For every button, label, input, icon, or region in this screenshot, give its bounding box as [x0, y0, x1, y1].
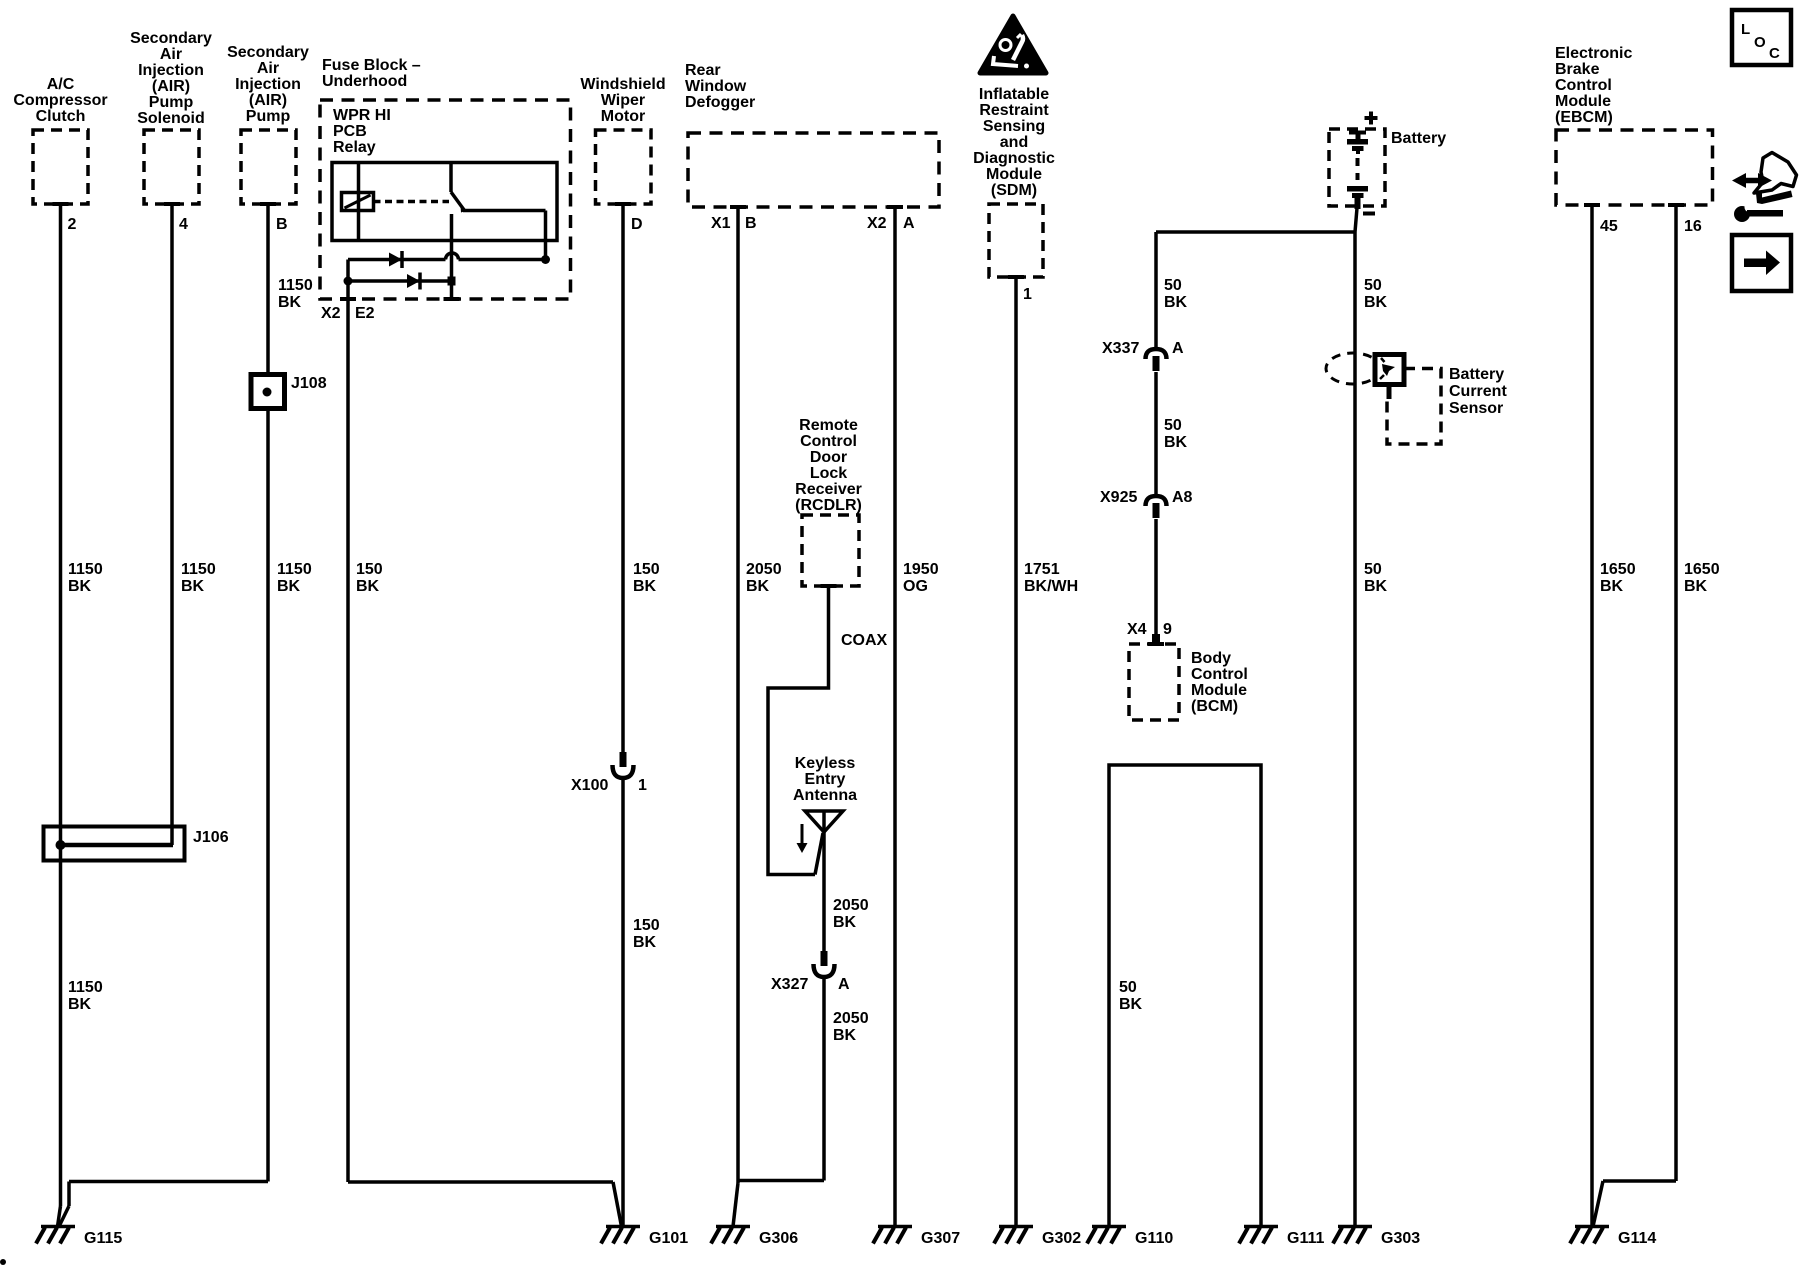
wrench icon: [1756, 191, 1793, 205]
svg-text:Inflatable: Inflatable: [979, 86, 1049, 103]
svg-text:BK: BK: [277, 578, 301, 595]
svg-text:X1: X1: [711, 215, 731, 232]
relay switch contact line: [463, 209, 546, 213]
Secondary Air Injection (AIR) Pump Solenoid box: [144, 130, 199, 204]
svg-text:A/C: A/C: [47, 76, 75, 93]
svg-text:2050: 2050: [833, 897, 869, 914]
wire fuse block to G101: [348, 1180, 613, 1184]
svg-text:Control: Control: [1555, 77, 1612, 94]
svg-text:150: 150: [633, 917, 660, 934]
svg-text:Diagnostic: Diagnostic: [973, 150, 1055, 167]
svg-text:16: 16: [1684, 218, 1702, 235]
junction dot row2 left: [344, 277, 353, 286]
svg-text:A: A: [1172, 340, 1184, 357]
svg-text:1150: 1150: [181, 561, 216, 578]
LOC reference box: [1732, 10, 1791, 65]
svg-text:G110: G110: [1135, 1230, 1173, 1247]
svg-text:BK: BK: [1164, 294, 1188, 311]
curved arrow icon: [1754, 153, 1797, 194]
svg-text:Module: Module: [1191, 682, 1247, 699]
boxed right arrow icon: [1732, 235, 1791, 291]
svg-text:BK: BK: [1119, 996, 1143, 1013]
svg-text:Body: Body: [1191, 650, 1231, 667]
Fuse Block - Underhood dashed box: [320, 100, 571, 299]
svg-text:2: 2: [68, 216, 77, 233]
svg-text:1150: 1150: [277, 561, 312, 578]
svg-text:9: 9: [1163, 621, 1172, 638]
svg-text:J106: J106: [193, 829, 229, 846]
ground G306: [716, 1225, 750, 1229]
svg-text:1150: 1150: [68, 979, 103, 996]
svg-text:G115: G115: [84, 1230, 122, 1247]
svg-text:Lock: Lock: [810, 465, 847, 482]
svg-text:45: 45: [1600, 218, 1618, 235]
svg-text:Receiver: Receiver: [795, 481, 862, 498]
A/C Compressor Clutch box: [33, 130, 88, 204]
svg-text:BK: BK: [833, 1027, 857, 1044]
svg-text:50: 50: [1164, 417, 1182, 434]
page corner artifact dot: [0, 1259, 6, 1265]
Body Control Module (BCM) box: [1129, 644, 1179, 720]
svg-text:Electronic: Electronic: [1555, 45, 1632, 62]
svg-text:Air: Air: [257, 60, 279, 77]
svg-text:Battery: Battery: [1449, 366, 1504, 383]
svg-text:G307: G307: [921, 1230, 960, 1247]
wire 50 BK ground bus: [1109, 765, 1261, 1227]
wire 1150 BK from AIR Pump to J108: [266, 204, 270, 374]
wire 50 BK X925 to BCM: [1154, 519, 1158, 637]
ground G110: [1092, 1225, 1126, 1229]
wire antenna branch to defogger B wire: [738, 1179, 824, 1183]
signal direction arrow: [801, 824, 804, 845]
relay output wire to diodes: [544, 211, 548, 260]
svg-text:(EBCM): (EBCM): [1555, 109, 1613, 126]
wire D1 left corner down: [346, 260, 350, 282]
svg-text:L: L: [1741, 21, 1750, 38]
svg-text:Brake: Brake: [1555, 61, 1600, 78]
svg-text:PCB: PCB: [333, 123, 367, 140]
svg-text:50: 50: [1164, 277, 1182, 294]
svg-text:Control: Control: [1191, 666, 1248, 683]
svg-text:Pump: Pump: [149, 94, 194, 111]
svg-text:X4: X4: [1127, 621, 1147, 638]
wire 50 BK X337 to X925: [1154, 372, 1158, 495]
splice J106: [44, 827, 185, 861]
svg-text:BK: BK: [1364, 578, 1388, 595]
RCDLR box: [802, 515, 859, 586]
wire battery negative jog: [1355, 208, 1357, 232]
svg-text:Injection: Injection: [235, 76, 301, 93]
diode D2: [407, 274, 420, 288]
svg-text:Compressor: Compressor: [13, 92, 107, 109]
Battery Current Sensor box: [1375, 355, 1404, 385]
svg-text:Remote: Remote: [799, 417, 858, 434]
svg-text:Module: Module: [986, 166, 1042, 183]
svg-text:C: C: [1769, 45, 1780, 62]
two-way arrow icon: [1743, 178, 1761, 184]
svg-text:Entry: Entry: [805, 771, 846, 788]
wire 1650 BK EBCM pin 16 down: [1674, 205, 1678, 1181]
wire AIR pump branch to G115: [69, 1180, 268, 1184]
ground G302: [999, 1225, 1033, 1229]
svg-text:BK: BK: [278, 294, 302, 311]
svg-text:Motor: Motor: [601, 108, 645, 125]
svg-text:Rear: Rear: [685, 62, 721, 79]
svg-text:1650: 1650: [1600, 561, 1636, 578]
SDM box: [989, 204, 1043, 277]
Secondary Air Injection (AIR) Pump box: [241, 130, 296, 204]
svg-text:BK/WH: BK/WH: [1024, 578, 1078, 595]
svg-text:X100: X100: [571, 777, 608, 794]
svg-text:Underhood: Underhood: [322, 73, 407, 90]
diode D2 wire (row 2): [348, 279, 452, 283]
keyless entry antenna symbol: [805, 811, 843, 832]
svg-text:WPR HI: WPR HI: [333, 107, 391, 124]
svg-text:(RCDLR): (RCDLR): [795, 497, 862, 514]
svg-text:1751: 1751: [1024, 561, 1060, 578]
svg-text:Clutch: Clutch: [36, 108, 86, 125]
svg-text:BK: BK: [1684, 578, 1708, 595]
wire 50 BK battery main down: [1353, 232, 1357, 1227]
svg-text:Module: Module: [1555, 93, 1611, 110]
svg-text:OG: OG: [903, 578, 928, 595]
wire 2050 BK defogger pin B down: [736, 207, 740, 1183]
wire 1150 BK from A/C Compressor Clutch to G115: [59, 204, 63, 1206]
svg-text:Window: Window: [685, 78, 747, 95]
svg-text:J108: J108: [291, 375, 327, 392]
EBCM box: [1556, 130, 1713, 205]
Battery dashed box: [1329, 129, 1385, 206]
wire defogger B jog to G306: [733, 1183, 738, 1227]
svg-text:50: 50: [1364, 561, 1382, 578]
svg-text:Defogger: Defogger: [685, 94, 755, 111]
svg-text:50: 50: [1364, 277, 1382, 294]
svg-text:A8: A8: [1172, 489, 1193, 506]
COAX wire RCDLR to antenna: [768, 586, 829, 875]
ground G115: [41, 1225, 75, 1229]
svg-text:Air: Air: [160, 46, 182, 63]
svg-text:BK: BK: [181, 578, 205, 595]
svg-text:150: 150: [356, 561, 383, 578]
diode D1 wire (row 1): [348, 258, 446, 262]
svg-text:(AIR): (AIR): [152, 78, 190, 95]
svg-text:Restraint: Restraint: [979, 102, 1049, 119]
svg-text:Fuse Block –: Fuse Block –: [322, 57, 421, 74]
svg-text:1150: 1150: [68, 561, 103, 578]
BCM pin stub: [1152, 634, 1160, 646]
wire 2050 BK X327 down: [822, 977, 826, 1181]
svg-text:G303: G303: [1381, 1230, 1420, 1247]
svg-text:G302: G302: [1042, 1230, 1081, 1247]
diode D1: [389, 253, 402, 267]
ground G114: [1575, 1225, 1609, 1229]
svg-text:Solenoid: Solenoid: [137, 110, 205, 127]
svg-text:COAX: COAX: [841, 632, 888, 649]
svg-text:2050: 2050: [833, 1010, 869, 1027]
relay K (WPR HI PCB Relay) case: [332, 163, 557, 241]
Rear Window Defogger box: [688, 133, 939, 207]
svg-text:50: 50: [1119, 979, 1137, 996]
relay common pole wire: [450, 214, 454, 299]
svg-text:and: and: [1000, 134, 1028, 151]
svg-text:(BCM): (BCM): [1191, 698, 1238, 715]
relay switch blade: [451, 192, 465, 211]
svg-text:BK: BK: [1600, 578, 1624, 595]
svg-text:O: O: [1754, 34, 1766, 51]
Battery Current Sensor dashed outline: [1387, 369, 1441, 445]
ground G101: [606, 1225, 640, 1229]
svg-text:(AIR): (AIR): [249, 92, 287, 109]
svg-text:150: 150: [633, 561, 660, 578]
svg-text:Sensing: Sensing: [983, 118, 1045, 135]
svg-text:1650: 1650: [1684, 561, 1720, 578]
wire 150 BK X100 to G101: [621, 778, 625, 1227]
wire 2050 BK antenna to X327: [822, 832, 826, 951]
svg-text:BK: BK: [68, 578, 92, 595]
svg-text:BK: BK: [833, 914, 857, 931]
ground G303: [1338, 1225, 1372, 1229]
ground G307: [878, 1225, 912, 1229]
svg-text:X337: X337: [1102, 340, 1139, 357]
relay coil-switch dashed link: [374, 200, 450, 204]
wire branch battery to body harness: [1156, 230, 1355, 234]
svg-text:BK: BK: [68, 996, 92, 1013]
+ terminal label: [1365, 116, 1378, 120]
svg-text:E2: E2: [355, 305, 375, 322]
svg-text:G306: G306: [759, 1230, 798, 1247]
svg-text:1950: 1950: [903, 561, 939, 578]
wire 1650 BK EBCM pin 45 to G114: [1590, 205, 1594, 1227]
svg-text:Door: Door: [810, 449, 847, 466]
relay switch pivot line: [449, 163, 453, 193]
svg-text:Wiper: Wiper: [601, 92, 645, 109]
svg-text:G111: G111: [1287, 1230, 1324, 1247]
junction square row2 right: [448, 277, 456, 286]
svg-text:D: D: [631, 216, 643, 233]
svg-text:Antenna: Antenna: [793, 787, 857, 804]
svg-text:1: 1: [1023, 286, 1032, 303]
svg-text:BK: BK: [746, 578, 770, 595]
svg-text:A: A: [903, 215, 915, 232]
svg-text:B: B: [276, 216, 288, 233]
- terminal label: [1363, 212, 1375, 216]
svg-text:Keyless: Keyless: [795, 755, 856, 772]
svg-text:1150: 1150: [278, 277, 313, 294]
SDM warning triangle icon: [980, 16, 1046, 73]
svg-text:BK: BK: [633, 934, 657, 951]
svg-text:Secondary: Secondary: [227, 44, 309, 61]
connector X337 pin A: [1146, 349, 1167, 359]
svg-text:G101: G101: [649, 1230, 688, 1247]
relay coil feed line: [357, 163, 361, 241]
wire 50 BK branch down to X337: [1154, 232, 1158, 348]
Windshield Wiper Motor box: [596, 130, 652, 204]
ground G111: [1244, 1225, 1278, 1229]
relay coil: [342, 193, 374, 211]
svg-text:Injection: Injection: [138, 62, 204, 79]
Battery Current Sensor stem: [1387, 385, 1392, 400]
svg-text:X2: X2: [321, 305, 341, 322]
svg-text:Secondary: Secondary: [130, 30, 212, 47]
svg-text:Current: Current: [1449, 383, 1507, 400]
connector X925 pin A8: [1146, 496, 1167, 506]
svg-text:(SDM): (SDM): [991, 182, 1037, 199]
svg-text:Pump: Pump: [246, 108, 291, 125]
svg-text:X327: X327: [771, 976, 808, 993]
wire pin16 jog to G114: [1593, 1181, 1603, 1227]
svg-text:4: 4: [179, 216, 188, 233]
connector X327 pin A: [821, 951, 828, 966]
svg-text:Control: Control: [800, 433, 857, 450]
splice J108: [251, 375, 285, 409]
svg-text:BK: BK: [1164, 434, 1188, 451]
connector X100 pin 1: [620, 752, 627, 767]
svg-text:BK: BK: [1364, 294, 1388, 311]
svg-text:BK: BK: [633, 578, 657, 595]
svg-text:B: B: [745, 215, 757, 232]
svg-text:A: A: [838, 976, 850, 993]
wire 1150 BK from AIR Pump Solenoid to J106: [170, 204, 174, 845]
svg-text:X925: X925: [1100, 489, 1137, 506]
svg-text:1: 1: [638, 777, 647, 794]
wire 150 BK wiper motor to X100: [621, 204, 625, 752]
svg-text:Sensor: Sensor: [1449, 400, 1503, 417]
svg-text:BK: BK: [356, 578, 380, 595]
wire from fuse block pin E2 down: [346, 281, 350, 1182]
wire 1950 OG defogger pin A to G307: [893, 207, 897, 1227]
svg-text:2050: 2050: [746, 561, 782, 578]
svg-text:X2: X2: [867, 215, 887, 232]
svg-text:Relay: Relay: [333, 139, 376, 156]
Battery Current Sensor ellipse: [1326, 353, 1380, 384]
svg-text:Battery: Battery: [1391, 130, 1446, 147]
wire jogs into G115: [58, 1206, 61, 1227]
battery B+ symbol: [1349, 131, 1366, 135]
wire 1751 BK/WH SDM to G302: [1014, 277, 1018, 1227]
svg-text:Windshield: Windshield: [580, 76, 665, 93]
junction dot relay output / D1: [541, 255, 550, 264]
svg-text:G114: G114: [1618, 1230, 1656, 1247]
